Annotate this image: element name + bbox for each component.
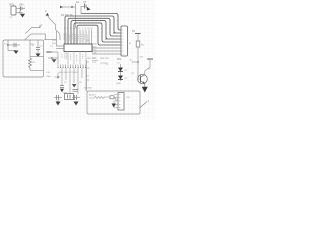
wire node2 to IC: [48, 16, 61, 41]
diode D2: [118, 76, 123, 80]
wire c4: [72, 97, 80, 99]
node VIN bars: [20, 6, 22, 10]
transistor Q2 collector: [141, 75, 145, 78]
junction dot: [51, 57, 53, 59]
supply bar R5: [135, 33, 141, 35]
dark bar on wire: [47, 51, 52, 53]
bus wire 1: [81, 14, 121, 31]
junction: [7, 44, 9, 46]
wire supply to collector: [145, 59, 150, 75]
left box (power section): [3, 40, 44, 77]
connector JP1 pin numbers: [122, 30, 124, 56]
svg-text:A1: A1: [76, 0, 80, 4]
transistor Q2 circle: [138, 74, 148, 84]
wire BT1 minus: [16, 12, 23, 14]
wires below continue: [62, 68, 86, 94]
wire long from IC to box: [86, 60, 88, 91]
wire down to gnd: [8, 45, 16, 51]
bus wire 4: [71, 21, 121, 44]
minus bar: [19, 11, 21, 14]
resistor R5 body: [136, 41, 140, 47]
node 2 arrow: [46, 13, 50, 16]
crystal Q1 plates: [68, 95, 71, 99]
wire inside box: [89, 97, 110, 99]
wire C2 to gnd: [37, 50, 39, 54]
IC U1 body: [64, 44, 92, 52]
svg-text:TXD: TXD: [92, 50, 97, 52]
svg-text:100n: 100n: [46, 76, 52, 78]
grid (decorative, faint): [0, 0, 156, 120]
cap C2 plates: [36, 48, 40, 50]
svg-text:JP1: JP1: [117, 57, 122, 61]
wire to cap C2: [37, 40, 39, 47]
wire diode column: [120, 64, 122, 81]
wire R5 top: [137, 34, 139, 42]
speaker pin marks: [119, 95, 121, 108]
wire res top across: [30, 56, 44, 58]
resistor R1: [29, 58, 32, 70]
battery BT1 body: [11, 6, 16, 15]
bus wire 6: [77, 25, 121, 45]
IC U1 left pins: [56, 46, 64, 49]
bus wire 2: [65, 16, 121, 44]
wire diag 2: [26, 28, 41, 34]
supply bar for collector: [147, 58, 153, 60]
wire stub from box top: [7, 40, 9, 45]
ground left of IC bottom: [52, 59, 57, 62]
wire AREF down: [75, 4, 77, 29]
cap C6 plates: [73, 90, 79, 92]
ground under C2: [36, 54, 41, 58]
wire y58: [48, 57, 58, 59]
ground under C4: [74, 102, 79, 106]
speaker LS1 pins: [114, 95, 118, 108]
ground under emitter: [142, 87, 148, 93]
wire stub left of junction: [132, 61, 139, 63]
svg-text:VC: VC: [50, 46, 53, 48]
vertical at IC left: [57, 52, 59, 64]
IC U1 bottom pin names: [62, 53, 83, 62]
wire to speaker: [114, 98, 118, 101]
wire R5 to base: [138, 47, 141, 79]
transistor Q2 emitter: [141, 81, 145, 87]
wire from box to IC: [44, 39, 57, 41]
connector JP1: [121, 26, 128, 56]
diode D1: [118, 68, 123, 72]
bus wire 5: [74, 23, 121, 44]
jog C2: [30, 43, 34, 45]
callout pointer: [140, 102, 148, 109]
ground in box left: [14, 51, 19, 55]
speaker LS1 body: [118, 93, 124, 111]
wire c3 gnd: [57, 100, 59, 102]
wire vertical mid box: [29, 40, 31, 58]
svg-text:OC1: OC1: [92, 62, 97, 64]
svg-text:DTR: DTR: [92, 53, 97, 55]
svg-text:GND GND VCC AVC: GND GND VCC AVC: [58, 71, 79, 74]
junction bus4: [105, 38, 106, 39]
ground under BT1: [20, 14, 25, 18]
wire res bottom across: [30, 70, 44, 72]
ground under pin: [72, 84, 77, 88]
junction cluster left: [54, 73, 60, 79]
svg-text:16M: 16M: [63, 93, 67, 95]
wire BT1 plus: [16, 8, 20, 10]
wire gnd: [113, 101, 115, 104]
svg-text:PB3 PB4: PB3 PB4: [100, 58, 110, 60]
wire net TX to connector: [92, 50, 121, 52]
transistor Q2 base bar: [140, 76, 142, 83]
wire across: [8, 44, 20, 46]
bottom-right box: [87, 91, 140, 114]
svg-text:C7: C7: [83, 0, 87, 4]
tick marks on wire: [87, 62, 91, 80]
wire left vertical: [56, 31, 58, 46]
supply plates: [85, 4, 87, 9]
series component: [110, 96, 114, 99]
junction R5: [137, 61, 139, 63]
IC U1 pin numbers row: [64, 28, 94, 30]
svg-text:GND: GND: [116, 83, 121, 85]
svg-text:RXD: RXD: [92, 47, 97, 49]
svg-text:SOUND: SOUND: [84, 88, 92, 90]
cap C3 plates: [57, 95, 59, 100]
svg-text:5V: 5V: [132, 29, 135, 33]
junction dot: [57, 76, 59, 78]
IC U1 top pins: [80, 30, 92, 45]
supply arrow: [87, 7, 91, 11]
cap C1 plates: [14, 43, 16, 47]
plus wire tail: [22, 8, 25, 10]
IC U1 top pin names (vertical text marks): [64, 34, 87, 43]
wire right of labels: [92, 61, 107, 66]
wire diag from box top: [25, 34, 46, 40]
bottom pin number ticks: [58, 65, 86, 67]
ground under C3: [56, 102, 61, 106]
wire to IC lower-left: [46, 51, 58, 53]
ground under C5: [60, 89, 64, 92]
wire net DTR to connector: [92, 53, 121, 55]
svg-text:AUDIO: AUDIO: [89, 94, 96, 97]
cap C4 plates: [75, 95, 77, 100]
net AREF arrow: [60, 6, 64, 8]
svg-text:GND: GND: [92, 44, 97, 46]
supply symbol VCC top: [81, 7, 84, 14]
bottom pin pads: [58, 67, 86, 68]
IC U1 bottom pins: [68, 51, 86, 64]
crystal section: wire left: [54, 97, 62, 99]
junction AREF: [71, 6, 73, 8]
junction bus2: [113, 32, 114, 33]
emitter arrowhead: [143, 81, 146, 83]
wire net RX to connector: [92, 47, 121, 49]
wire AREF: [61, 6, 76, 8]
crystal Q1 body: [65, 94, 74, 100]
ground in box: [112, 104, 117, 108]
node 1 tick: [39, 26, 41, 28]
svg-text:M: M: [129, 43, 131, 45]
bus wire 3: [68, 18, 121, 44]
svg-text:PB1 PB2: PB1 PB2: [87, 58, 97, 60]
cap C5 plates: [60, 86, 64, 88]
